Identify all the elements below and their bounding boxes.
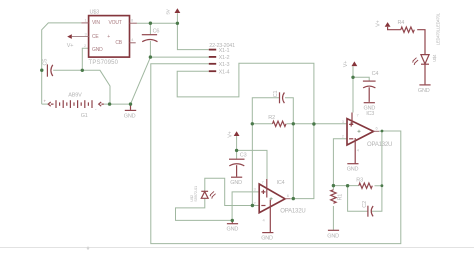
wire R1 top lead (332, 186, 334, 190)
node photodiode gnd (231, 219, 234, 222)
pin stub VIN (81, 22, 88, 24)
capacitor C4 (363, 71, 378, 102)
supply V+ arrow IC3 (352, 61, 358, 66)
svg-text:R3: R3 (356, 178, 363, 184)
ground GND IC3 (347, 164, 359, 173)
wire -in IC4 (252, 205, 259, 207)
wire photodiode bottom loop (176, 198, 233, 220)
wire X1-4 to IC4 output node (177, 63, 314, 124)
svg-text:AB9V: AB9V (68, 92, 82, 98)
svg-text:VIN: VIN (92, 20, 100, 26)
node feedback (251, 204, 254, 207)
wire IC3 out (379, 130, 382, 132)
LED U$4 (412, 12, 441, 84)
wire C1 loop (252, 98, 293, 124)
wire node B up to IC3 out (381, 131, 383, 186)
wire X1-1 from +5V node (177, 23, 208, 49)
svg-text:VOUT: VOUT (109, 20, 122, 26)
capacitor C5 (43, 59, 53, 77)
svg-text:X1-2: X1-2 (219, 55, 230, 61)
node V+ C4 (351, 76, 354, 79)
node X1-4 branch (312, 122, 315, 125)
ground GND IC4 (261, 233, 273, 242)
wire +5V lead (176, 13, 178, 23)
capacitor C3 (229, 153, 247, 177)
svg-text:CB: CB (115, 40, 122, 46)
wire C6 bottom lead (149, 41, 151, 57)
node IC3 out (381, 130, 384, 133)
ground GND C3 (230, 177, 242, 186)
svg-text:V+: V+ (343, 61, 349, 67)
wire feedback node down (251, 124, 253, 206)
svg-text:GND: GND (227, 227, 239, 233)
supply V+ arrow LED (385, 22, 391, 27)
svg-text:X1-1: X1-1 (219, 48, 230, 54)
wire +in IC4 to gnd node (232, 192, 259, 221)
resistor R3 (356, 178, 372, 189)
capacitor C1 (273, 91, 284, 104)
wire X1-3 long loop to IC3 output (151, 64, 401, 244)
resistor R2 (268, 115, 286, 126)
svg-text:GND: GND (92, 47, 103, 53)
svg-text:U$4: U$4 (432, 54, 437, 62)
svg-text:IC4: IC4 (277, 180, 285, 186)
node C6 top (149, 22, 152, 25)
wire battery right to GND (104, 103, 131, 105)
svg-text:GND: GND (418, 88, 430, 94)
node C5 left (40, 69, 43, 72)
node R1 top (332, 184, 335, 187)
resistor R4 (398, 20, 415, 32)
svg-text:U$3: U$3 (90, 9, 100, 15)
wire R2 rail (252, 123, 347, 125)
ground GND R1 (327, 230, 339, 239)
op-amp IC4 OPA132U (254, 179, 306, 232)
wire -in IC3 to R1 node (333, 139, 347, 186)
svg-text:GND: GND (347, 167, 359, 173)
node C6 bottom (149, 55, 152, 58)
wire V+ down to C3 node (236, 136, 238, 151)
node R2 right (292, 122, 295, 125)
svg-text:V+: V+ (375, 20, 381, 26)
pin stub VOUT (130, 22, 137, 24)
svg-text:5V: 5V (165, 9, 170, 14)
wire C5 right to TPS GND pin (53, 48, 88, 70)
ground GND LED (418, 85, 431, 94)
svg-text:R2: R2 (268, 115, 275, 121)
svg-text:+: + (44, 98, 47, 103)
IC U$3 TPS70950 body (89, 16, 130, 58)
wire bevel C5 node to battery minus (82, 70, 110, 104)
svg-text:GND: GND (124, 113, 136, 119)
svg-text:V+: V+ (227, 131, 233, 137)
pin stub CB (130, 42, 136, 44)
wire output to R2 right node (292, 124, 294, 199)
wire battery rail to VIN (42, 23, 82, 104)
wire R1 bottom lead (332, 206, 334, 230)
svg-text:C6: C6 (153, 29, 160, 35)
resistor R1 (331, 190, 344, 204)
node C5 right (81, 69, 84, 72)
svg-text:C3: C3 (240, 153, 247, 159)
ground GND C4 (364, 103, 376, 117)
wire V+ to R4 (388, 27, 401, 30)
node R2 left (251, 122, 254, 125)
svg-text:R1: R1 (337, 194, 343, 201)
wire battery left lead (42, 103, 49, 105)
wire C3 top lead (236, 150, 238, 159)
capacitor C2 (362, 201, 373, 217)
svg-text:IC3: IC3 (366, 111, 374, 117)
supply V+ arrow IC4 (234, 131, 240, 136)
supply +5V arrow (175, 8, 181, 13)
node IC4 out (292, 197, 295, 200)
node V+ C3 (235, 149, 238, 152)
svg-text:C5: C5 (43, 59, 49, 66)
wire C4 branch (353, 77, 369, 81)
svg-text:G1: G1 (81, 113, 88, 119)
node +5V (176, 22, 179, 25)
capacitor C6 (142, 29, 160, 42)
svg-text:GND: GND (230, 180, 242, 186)
wire photodiode top to -in (205, 178, 253, 205)
svg-text:CE: CE (92, 34, 99, 40)
supply V+ arrow at CE (67, 34, 72, 39)
wire IC4 output (290, 198, 293, 200)
node battery minus (108, 102, 111, 105)
svg-text:GND: GND (261, 236, 273, 242)
svg-text:TPS70950: TPS70950 (89, 60, 119, 66)
battery G1 (44, 92, 104, 119)
svg-text:+: + (107, 34, 110, 40)
svg-text:C1: C1 (273, 91, 279, 98)
svg-text:R4: R4 (398, 20, 405, 26)
svg-text:OPA132U: OPA132U (367, 142, 392, 148)
wire V+ IC3 down (352, 66, 354, 112)
node battery gnd (129, 102, 132, 105)
wire C2 loop (348, 186, 382, 212)
op-amp IC3 OPA132U (342, 113, 392, 164)
svg-text:U$2: U$2 (189, 194, 194, 202)
wire R4 to LED (417, 30, 425, 55)
wire diagonal C6 to battery GND (131, 57, 151, 104)
svg-text:C4: C4 (372, 71, 379, 77)
svg-text:GND: GND (327, 233, 339, 239)
svg-text:V+: V+ (67, 43, 73, 49)
wire IC4 out up branch (293, 124, 314, 199)
frame bottom line (0, 247, 474, 249)
wire X1-2 GND net (150, 56, 208, 58)
svg-text:C2: C2 (362, 201, 368, 208)
svg-text:X1-3: X1-3 (219, 62, 230, 68)
svg-text:LED470LLED470L: LED470LLED470L (436, 12, 441, 45)
wire R1 node to R3 (333, 185, 382, 187)
ground GND battery (124, 105, 136, 120)
ground GND photodiode (227, 220, 239, 232)
node R3 left (346, 184, 349, 187)
wire C6 top lead (149, 23, 151, 34)
wire V+ node to IC4 pin7 (237, 150, 267, 179)
svg-text:X1-4: X1-4 (219, 69, 230, 75)
node R3 right (381, 184, 384, 187)
photodiode U$2 (189, 185, 215, 202)
wire VOUT to +5V node (137, 22, 178, 24)
connector X1 22-23-2041 (209, 43, 235, 75)
svg-text:OPA132U: OPA132U (280, 208, 305, 214)
